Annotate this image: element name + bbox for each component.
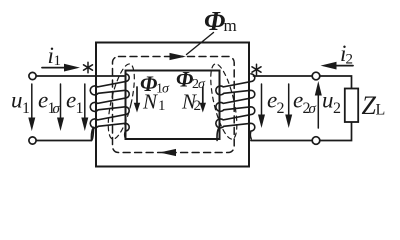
polarity mark secondary	[252, 64, 261, 75]
wire bottom-left	[36, 128, 94, 141]
svg-text:Φ: Φ	[176, 67, 193, 92]
svg-text:Φ: Φ	[204, 6, 225, 36]
flux arrow top (right)	[170, 53, 187, 60]
svg-text:σ: σ	[162, 82, 170, 97]
svg-text:1: 1	[22, 100, 30, 117]
svg-text:1: 1	[158, 98, 166, 114]
svg-text:m: m	[224, 16, 237, 35]
emf arrow e2 (down)	[258, 84, 265, 128]
svg-text:2: 2	[346, 52, 354, 68]
svg-text:Z: Z	[362, 91, 377, 120]
terminal bottom-right	[312, 137, 320, 145]
polarity mark primary	[84, 62, 93, 73]
load Z_L box	[345, 89, 358, 123]
terminal top-right	[312, 72, 320, 80]
svg-text:2: 2	[333, 100, 341, 117]
emf arrow e2sigma (down)	[285, 84, 292, 128]
leakage flux arrow left (down, thick)	[134, 87, 140, 113]
terminal bottom-left	[29, 137, 36, 144]
leakage flux arrow right (down, thick)	[200, 87, 206, 113]
svg-text:2: 2	[194, 98, 202, 114]
svg-text:u: u	[11, 88, 23, 113]
svg-text:2: 2	[277, 100, 285, 117]
svg-text:σ: σ	[198, 77, 206, 92]
core outer rectangle	[96, 43, 249, 167]
emf arrow e1 (down)	[81, 84, 88, 131]
wire top-left	[36, 75, 124, 77]
main flux Phi_m dashed path	[113, 57, 235, 153]
core window rectangle	[126, 71, 220, 140]
wire bottom-right	[251, 122, 352, 141]
terminal top-left	[29, 72, 36, 79]
svg-text:σ: σ	[309, 101, 317, 117]
current arrow i1	[42, 64, 80, 72]
leader line from Phi_m label	[187, 33, 214, 55]
svg-text:u: u	[322, 88, 334, 113]
voltage arrow u1 (down)	[28, 84, 35, 131]
winding N2 (secondary coil)	[216, 74, 255, 141]
voltage arrow u2 (up)	[315, 81, 322, 128]
winding N1 (primary coil)	[90, 74, 129, 141]
svg-text:L: L	[376, 102, 386, 119]
current arrow i2	[321, 62, 354, 70]
emf arrow e1sigma (down)	[57, 84, 64, 131]
leakage flux ellipse right	[205, 62, 242, 142]
svg-text:N: N	[142, 90, 158, 114]
leakage flux ellipse left	[103, 62, 140, 142]
wire top-right	[254, 76, 352, 89]
svg-text:σ: σ	[53, 101, 61, 117]
flux arrow bottom (left)	[160, 149, 177, 156]
svg-text:1: 1	[54, 53, 62, 69]
svg-text:1: 1	[76, 100, 84, 117]
